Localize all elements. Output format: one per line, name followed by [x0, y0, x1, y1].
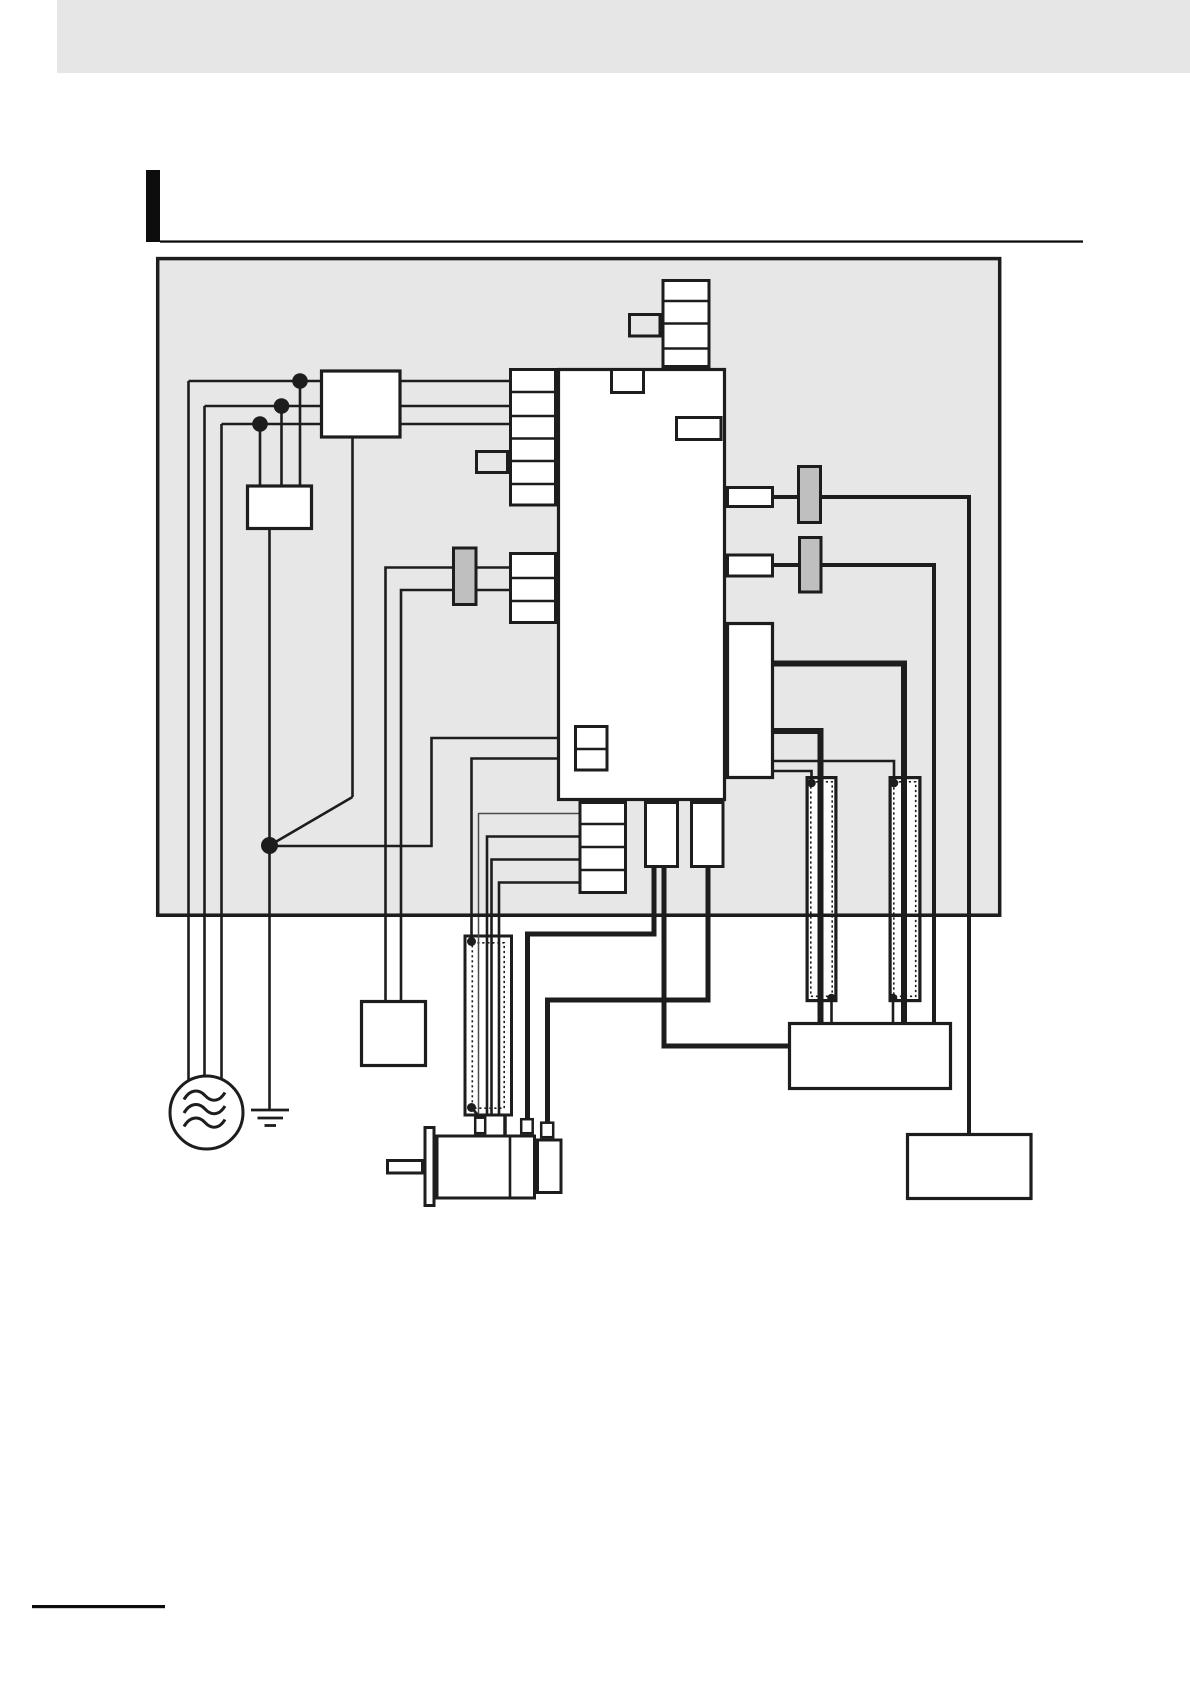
footer rule — [32, 1605, 165, 1608]
battery connector 1 dotted inner — [811, 782, 832, 997]
motor encoder stub — [541, 1123, 553, 1138]
ground bar 2 — [258, 1117, 284, 1120]
top terminal divider 3 — [663, 347, 709, 350]
internal connector tab — [677, 418, 722, 440]
ground bar 3 — [265, 1124, 277, 1127]
display window — [612, 370, 644, 393]
control terminal divider 2 — [511, 600, 556, 603]
power terminal side tab — [477, 452, 508, 473]
encoder connector tail — [472, 1108, 480, 1117]
power terminal divider 1 — [511, 391, 556, 394]
control panel enclosure — [158, 259, 1000, 916]
encoder cable connector dotted inner — [472, 943, 504, 1108]
encoder connector top dot — [467, 937, 476, 946]
connector CN-B plug — [800, 538, 822, 593]
connector CN-A plug — [799, 467, 821, 523]
top terminal side tab — [630, 315, 661, 337]
top terminal divider 1 — [663, 300, 709, 303]
resistor cable — [664, 868, 788, 1046]
battery connector 2 outer — [890, 778, 920, 1001]
encoder connector bottom dot — [467, 1103, 476, 1112]
control terminal divider 1 — [511, 577, 556, 580]
wire CN-B cable — [774, 565, 934, 1022]
node C junction dot — [252, 416, 268, 432]
battery connector 1 outer — [807, 778, 836, 1001]
wire 24VDC supply 2 — [401, 590, 509, 1000]
encoder terminal divider 2 — [580, 846, 626, 849]
ground junction dot — [261, 837, 278, 854]
AC wave 1 — [184, 1091, 225, 1100]
control terminal block — [511, 554, 556, 623]
wire L1 vertical to AC source — [187, 381, 190, 1090]
regeneration terminal block — [728, 624, 773, 778]
wire from noise filter ground drop — [351, 439, 354, 798]
motor shaft — [388, 1161, 423, 1174]
wire 24VDC supply 1 — [386, 568, 510, 1001]
wire L1 horizontal — [189, 380, 510, 383]
monitor terminal divider — [576, 748, 608, 751]
AC wave 2 — [184, 1105, 225, 1114]
wire from node A down to contactor — [299, 381, 302, 485]
encoder terminal divider 3 — [580, 869, 626, 872]
motor flange — [425, 1128, 434, 1206]
motor power cable — [528, 868, 655, 1118]
24VDC power supply box — [362, 1002, 426, 1066]
motor power terminal — [646, 803, 678, 867]
motor encoder terminal — [692, 803, 724, 867]
regeneration wire B — [774, 731, 821, 1022]
wire from node B down to contactor — [280, 406, 283, 485]
AC power source circle — [170, 1076, 243, 1149]
ground bar 1 — [251, 1109, 289, 1112]
battery connector 1 bottom dot — [827, 994, 836, 1003]
node B junction dot — [274, 398, 290, 414]
header band — [57, 0, 1190, 73]
monitor terminal block — [576, 727, 608, 771]
battery lead wire 2 — [892, 998, 895, 1022]
title rule — [160, 240, 1083, 242]
battery connector 2 bottom dot — [889, 994, 898, 1003]
motor power stub — [521, 1119, 533, 1133]
title side bar — [146, 170, 160, 242]
servo drive body — [559, 370, 725, 800]
battery lead wire 1 — [830, 998, 833, 1022]
regeneration wire A — [774, 664, 904, 1023]
motor encoder cable — [548, 868, 709, 1122]
encoder terminal divider 1 — [580, 823, 626, 826]
encoder bundle lead — [503, 1117, 507, 1135]
AC wave 3 — [184, 1118, 225, 1127]
battery sense wire 1 — [774, 771, 812, 783]
wire L2 horizontal — [205, 405, 510, 408]
wire L2 vertical to AC source — [203, 406, 206, 1090]
encoder wire 4 — [499, 883, 579, 1117]
power terminal divider 5 — [511, 483, 556, 486]
node A junction dot — [292, 373, 308, 389]
wire diagonal to ground node — [270, 797, 353, 846]
battery sense wire 2 — [774, 761, 894, 783]
motor connector stub — [475, 1118, 485, 1134]
wire from monitor terminal to encoder connector — [472, 759, 575, 942]
connector CN-B tab — [728, 555, 773, 576]
wire from node C down to contactor — [259, 424, 262, 485]
battery connector 2 top dot — [890, 779, 899, 788]
wire L3 horizontal — [222, 423, 510, 426]
ground wire vertical — [268, 530, 271, 1110]
encoder wire 2 — [487, 837, 579, 1117]
motor encoder housing — [538, 1140, 562, 1193]
power terminal divider 4 — [511, 460, 556, 463]
wire L3 vertical to AC source — [220, 424, 223, 1090]
wire CN-A cable — [774, 497, 969, 1133]
computer box — [908, 1135, 1032, 1199]
power terminal divider 3 — [511, 437, 556, 440]
encoder cable connector outer — [465, 936, 512, 1115]
motor body — [437, 1136, 535, 1198]
MCCB box — [322, 371, 401, 437]
top terminal block — [663, 281, 709, 367]
battery connector 2 dotted inner — [894, 782, 916, 997]
encoder wire 3 — [492, 860, 579, 1117]
connector CN-A tab — [728, 488, 773, 507]
enclosure bottom border redraw — [158, 913, 1000, 917]
ground wire horizontal to terminal — [270, 738, 575, 846]
battery connector 1 top dot — [807, 779, 816, 788]
24VDC connector plug — [454, 548, 477, 605]
top terminal divider 2 — [663, 322, 709, 325]
encoder terminal block — [580, 803, 626, 893]
regeneration resistor box — [790, 1024, 951, 1089]
power terminal block — [511, 370, 556, 506]
power terminal divider 2 — [511, 415, 556, 418]
magnetic contactor box — [248, 486, 312, 529]
encoder wire 1 — [479, 814, 579, 1117]
motor body divider — [509, 1136, 512, 1198]
